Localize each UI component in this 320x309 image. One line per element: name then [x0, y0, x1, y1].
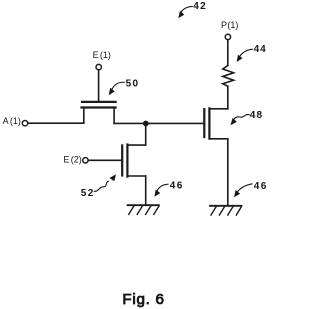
wire resistor to Q48 drain — [227, 86, 229, 109]
svg-text:52: 52 — [81, 188, 95, 199]
node P1 terminal circle — [225, 34, 230, 39]
wire Q52 gate lead — [88, 159, 122, 161]
node A terminal circle — [22, 121, 27, 126]
wire node to Q52 drain — [145, 124, 147, 146]
wire A(1) rail — [28, 122, 84, 124]
ground left bar — [128, 204, 159, 206]
node E1 terminal circle — [96, 64, 101, 69]
arrowhead 48 — [231, 118, 237, 125]
svg-text:50: 50 — [126, 79, 140, 90]
transistor Q50 channel bar — [82, 106, 116, 108]
svg-text:48: 48 — [250, 110, 264, 121]
svg-text:42: 42 — [193, 1, 207, 12]
wire Q52 source horizontal — [127, 175, 145, 177]
resistor R44 zigzag — [223, 66, 234, 87]
svg-text:Fig. 6: Fig. 6 — [122, 291, 164, 308]
transistor Q48 channel bar — [208, 108, 210, 138]
node E2 terminal circle — [83, 158, 88, 163]
arrowhead 50 — [109, 88, 115, 95]
ground right bar — [210, 205, 241, 207]
arrowhead 42 — [178, 11, 184, 18]
svg-text:E(1): E(1) — [93, 50, 111, 60]
node junction dot — [143, 121, 149, 127]
wire Q48 source horizontal — [209, 138, 227, 140]
wire Q50 gate lead — [98, 70, 100, 101]
arrow to 48 — [233, 115, 250, 122]
wire Q50 right leg — [113, 108, 115, 124]
arrowhead 46 left — [154, 190, 160, 197]
transistor Q50 gate bar — [82, 101, 116, 103]
wire Q48 drain horizontal — [209, 108, 227, 110]
wire Q52 source to ground — [145, 176, 147, 205]
wire Q52 drain horizontal — [127, 144, 145, 146]
transistor Q48 gate bar — [203, 109, 205, 137]
wire rail to Q48 gate — [114, 122, 204, 124]
wire Q48 source to ground — [227, 139, 229, 206]
arrow to 46 right — [237, 184, 253, 193]
arrowhead 44 — [237, 55, 243, 62]
transistor Q52 gate bar — [121, 145, 123, 175]
leader arrows — [94, 6, 253, 193]
transistor Q52 channel bar — [126, 145, 128, 177]
arrow to 42 — [180, 6, 193, 14]
arrow to 44 — [239, 49, 253, 58]
svg-text:46: 46 — [254, 181, 268, 192]
svg-text:A(1): A(1) — [3, 116, 21, 126]
wire Q50 left leg — [83, 108, 85, 124]
svg-text:46: 46 — [170, 181, 184, 192]
arrow to 52 — [94, 181, 109, 191]
svg-text:44: 44 — [254, 44, 267, 55]
arrowhead 46 right — [234, 190, 240, 197]
wire P(1) lead — [227, 40, 229, 66]
svg-text:P(1): P(1) — [221, 20, 238, 30]
arrow to 46 left — [157, 184, 169, 192]
arrow to 50 — [111, 82, 125, 91]
arrowhead 52 — [110, 174, 117, 181]
ground right hatches — [211, 207, 241, 215]
ground left hatches — [129, 206, 159, 214]
svg-text:E(2): E(2) — [63, 154, 81, 164]
